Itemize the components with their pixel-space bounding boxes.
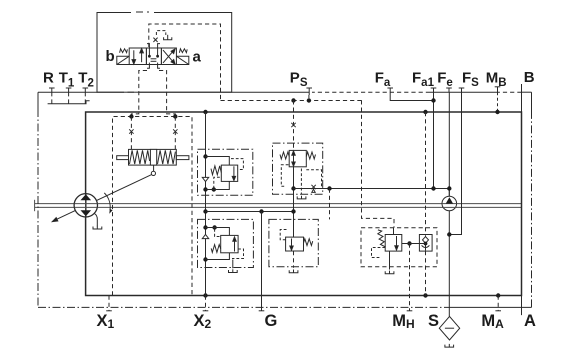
node X2 line to y211 line [203,209,207,213]
node junction PS tick on rail [307,98,311,102]
wire MB to block top edge [497,92,499,112]
plug X symbol [311,185,315,193]
servo rod left [117,156,129,160]
dashed enclosure around pilot valve [149,24,221,101]
node junction PS pilot on rail [291,98,295,102]
node y211 to PS drain line [291,209,295,213]
DR valve spring [211,166,221,175]
port MB tick [495,87,501,92]
wire MH line [409,244,411,311]
DR valve square [221,165,237,181]
svg-text:a: a [193,49,202,66]
wire pilot tap down [329,189,331,220]
orifice on PS pilot [291,123,295,127]
swashplate lever with arrow [52,175,151,222]
wire DR valve bottom return [206,181,230,189]
wire boost relief top [393,228,395,235]
valve2 spring drain dashes right [300,169,302,195]
lower-left valve dash-dot box [198,219,254,267]
valve center position stubs [148,48,159,65]
wire drive shaft double line [35,200,522,211]
wire G line down [261,212,263,311]
node G tap [259,209,263,213]
port T1 tick [66,88,72,92]
check symbol on LL supply [202,235,208,239]
drain symbol boost relief [385,271,394,274]
port Fa tick [387,88,393,92]
svg-text:R: R [43,70,54,87]
svg-text:b: b [106,48,115,65]
port X1 tick [106,296,112,311]
LL pilot dashes right [232,249,244,259]
node LL tap2 [212,225,216,229]
node Fa junction [431,98,435,102]
LL valve arrow up [233,237,236,252]
pump P1 triangles [81,194,92,216]
port G cap [259,310,265,312]
DR valve dash-dot box [198,149,253,195]
node dots on block bottom edge [203,293,207,297]
boost relief valve square [385,235,402,252]
node boost junction [447,186,451,190]
pump stroke arc [104,193,110,210]
node FS join S [447,232,451,236]
wire flushing drain [293,251,295,268]
top control box [97,13,232,93]
boost pump triangle [446,197,453,203]
orifice on servo line b [129,129,133,133]
drain symbol LL [229,269,238,272]
wire servo pilot lines [131,117,175,150]
port FS tick [459,88,465,92]
node pilot tap [327,186,331,190]
servo feedback pin [153,165,155,171]
flushing pilot dashes [280,230,288,240]
valve2 square [289,150,306,166]
outer unit frame dash-dot [38,92,532,307]
spring b [120,49,128,53]
DR pilot dashed hook [231,159,243,170]
drain symbol above valve [164,35,172,40]
node DR bottom left [203,187,207,191]
DR valve arrow [232,166,235,180]
boost pump circle [442,196,457,211]
DR spring drain dashes [214,177,220,189]
main block boundary [86,112,522,296]
pilot rail dashed y=100.3 [221,100,362,102]
valve2 spring drain dashes left [281,165,288,187]
wire check valve line vertical [425,112,427,296]
wire DR tap to valve top [206,157,230,166]
node valve2 output [291,186,295,190]
wire boost pump top [448,189,450,197]
node DR supply tap [203,154,207,158]
port A corner [521,296,523,316]
node boost relief output [407,241,411,245]
spring a [179,49,187,53]
wire PS to pilot rail [308,95,310,101]
pump case drain symbol [93,226,102,229]
node DR drain join [212,187,216,191]
LL pilot dashes left [215,229,221,237]
proportional valve U1 body [129,48,176,65]
valve2 dash-dot box [273,143,323,194]
check valve square [419,235,432,252]
port MA tick [495,296,501,311]
dashed connection frame below valve [131,71,175,117]
check valve internals [419,235,429,250]
servo spring left [130,150,150,164]
LL valve square [221,235,238,252]
wire valve2 bottom down [293,167,295,237]
flushing valve dash-dot box [269,219,318,266]
valve2 spring left [280,152,289,159]
port T2 tick [83,88,89,92]
shaft lines over pump [75,204,98,208]
flushing valve arrow [290,239,293,251]
valve2 double arrow [292,151,295,166]
drain symbol under filter [445,344,454,347]
control module dashed box [113,117,193,296]
orifice symbol above valve [153,38,157,42]
drain symbol flushing [289,270,298,273]
wire pilot rail down jog to boost relief [362,100,395,227]
node LL bottom [203,257,207,261]
port rail solid R to PS [38,91,309,93]
svg-text:A: A [524,312,536,330]
solenoid b box [117,56,129,64]
wire LL tap to valve top [206,228,230,236]
servo rod right [176,156,189,160]
port R tick [49,88,55,92]
wire R T1 T2 manifold [52,92,86,104]
shaft lines over boost pump [442,204,457,208]
node LL tap1 [203,225,207,229]
wire PS pilot down [293,100,295,150]
servo cylinder body [129,149,177,165]
wire S suction line [448,211,450,317]
wire boost relief drain [389,251,391,269]
drain symbol valve2 [297,196,306,199]
pump P1 port line [85,194,87,217]
node servo pilot b [129,114,133,118]
wire Fa1 down to boost line [433,92,435,188]
port PS tick [306,88,312,95]
orifice on servo line a [173,129,177,133]
node dots on block top edge [203,110,207,114]
valve port stubs below [147,65,160,69]
LL valve spring [211,245,221,253]
port Fa1 tick [431,88,437,92]
servo piston [150,149,156,165]
port X2 tick [203,296,209,311]
boost relief pilot dashes [372,248,386,258]
svg-text:G: G [265,312,278,330]
solenoid a box [176,56,188,64]
svg-text:B: B [524,69,535,86]
valve2 pilot dashes [306,170,321,189]
dashed bracket above valve [156,31,165,35]
wire LL valve bottom return [206,253,230,260]
servo spring right [158,150,176,164]
port B line [521,84,523,112]
valve pilot stubs above center [147,44,160,48]
flushing valve square [286,237,304,251]
check symbol on supply [202,177,208,181]
node servo pilot a [173,114,177,118]
valve arrows position a crossed [163,49,175,64]
svg-text:S: S [428,312,439,330]
port Fe tick [446,88,452,92]
boost relief dashed box [361,228,437,267]
wire LL drain [232,260,234,269]
pump case drain line [95,214,98,227]
flushing valve spring [304,239,313,246]
boost relief diagonal spring [378,230,386,247]
valve2 spring right [306,152,315,159]
wire boost pressure line [294,188,450,190]
wire FS down to S line [449,92,461,234]
pump P1 circle [74,194,97,217]
suction filter diamond [439,316,459,340]
wire relief to check [402,243,420,245]
wire horizontal y211 [206,211,294,213]
dash-dot break on top box top edge [131,11,154,14]
node Fa1 line junction [431,186,435,190]
wire Fa to Fa1 [390,92,433,100]
valve arrows position b [132,49,143,65]
port MH cap [407,310,413,312]
wire Fe down to boost pump [448,92,450,196]
wire X2 supply vertical [205,112,207,296]
boost relief arrow [395,236,398,250]
